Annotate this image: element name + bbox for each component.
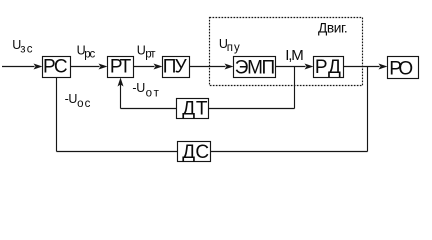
- dashed box Dvig (motor): [210, 18, 363, 86]
- svg-text:ос: ос: [77, 98, 91, 110]
- block PU (power converter): [163, 57, 190, 78]
- block RS (speed regulator): [43, 57, 71, 78]
- svg-text:зс: зс: [20, 44, 33, 56]
- svg-text:рт: рт: [145, 48, 156, 60]
- wire DS output left: [57, 151, 178, 153]
- wire RS to RT: [71, 66, 100, 68]
- svg-text:РС: РС: [43, 57, 68, 78]
- svg-text:РТ: РТ: [110, 57, 132, 78]
- svg-text:U: U: [136, 81, 145, 95]
- wire RT to PU: [134, 66, 155, 68]
- block DS (speed sensor): [178, 142, 211, 162]
- svg-text:РД: РД: [315, 57, 341, 78]
- wire DT output left: [121, 108, 177, 110]
- svg-text:пу: пу: [227, 42, 240, 54]
- svg-text:ДС: ДС: [182, 142, 209, 163]
- block EMP (electromechanical converter): [234, 57, 276, 78]
- wire input to RS: [2, 66, 35, 68]
- svg-text:рс: рс: [84, 48, 95, 60]
- arrowhead into RS: [34, 64, 43, 70]
- wire RD to RO: [344, 66, 380, 68]
- svg-text:I,М: I,М: [285, 47, 304, 64]
- svg-text:U: U: [68, 92, 77, 106]
- arrowhead up into RT bottom: [118, 78, 124, 87]
- arrowhead into EMP: [225, 64, 234, 70]
- arrowhead into RO: [379, 64, 388, 70]
- svg-text:ЭМП: ЭМП: [235, 57, 275, 78]
- arrowhead into RT: [99, 64, 108, 70]
- svg-text:ДТ: ДТ: [182, 99, 208, 120]
- svg-text:ПУ: ПУ: [163, 56, 188, 77]
- block RO (working element): [388, 57, 419, 79]
- svg-text:Двиг.: Двиг.: [318, 21, 348, 36]
- wire up into RT bottom: [120, 85, 122, 109]
- wire PU to EMP: [190, 66, 226, 68]
- wire tap after RD down to DS level: [367, 67, 369, 152]
- wire EMP to RD: [276, 66, 306, 68]
- block DT (current sensor): [177, 99, 209, 119]
- svg-text:РО: РО: [389, 58, 413, 79]
- arrowhead into PU: [154, 64, 163, 70]
- block RD (motor rotor): [314, 57, 344, 78]
- wire tap I,M down to DT level: [294, 67, 296, 109]
- wire into DS right side: [211, 151, 368, 153]
- wire into DT right side: [209, 108, 295, 110]
- wire up into RS bottom: [56, 78, 58, 152]
- block RT (current regulator): [108, 57, 134, 78]
- arrowhead into RD: [305, 64, 314, 70]
